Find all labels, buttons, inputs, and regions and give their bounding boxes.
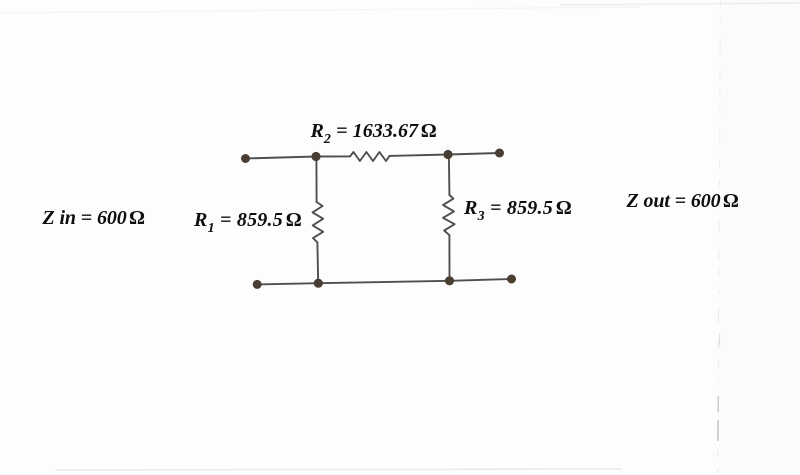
wire: bottom-left terminal to node C — [257, 283, 318, 284]
resistor R3 — [443, 195, 455, 235]
label R1 value — [194, 209, 302, 232]
bottom-left terminal dot — [253, 280, 262, 289]
wire: input terminal to node A (top left) — [246, 157, 317, 159]
resistor R1 — [313, 202, 324, 243]
wire: node A to resistor R2 — [316, 155, 350, 157]
bottom-right terminal dot — [507, 275, 516, 284]
resistor R2 — [350, 152, 390, 161]
node C junction dot (R1 bottom) — [314, 279, 323, 288]
wire: node B to output terminal (top right) — [448, 153, 500, 155]
wire: node A down to resistor R1 — [315, 157, 317, 203]
wire: node C to node D (bottom rail) — [318, 281, 449, 283]
wire: node D to bottom-right terminal — [450, 279, 512, 281]
wire: resistor R3 to node D — [448, 235, 450, 280]
input terminal dot (top left) — [241, 154, 250, 163]
wire: node B down to resistor R3 — [448, 155, 451, 196]
label R2 value — [311, 120, 437, 143]
node B junction dot (R2/R3 top) — [443, 150, 452, 159]
wire: resistor R2 to node B — [390, 155, 449, 156]
output terminal dot (top right) — [495, 149, 504, 158]
label Z in — [43, 207, 145, 230]
label R3 value — [464, 197, 572, 220]
wire: resistor R1 to node C — [316, 243, 319, 284]
node D junction dot (R3 bottom) — [445, 276, 454, 285]
node A junction dot (R1/R2 top) — [311, 152, 320, 161]
label Z out — [627, 190, 739, 213]
